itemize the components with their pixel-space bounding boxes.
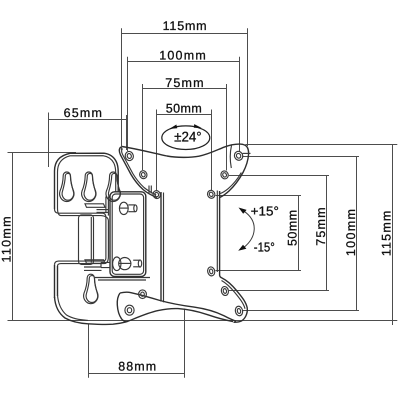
svg-text:115mm: 115mm bbox=[163, 19, 207, 33]
svg-text:50mm: 50mm bbox=[285, 210, 299, 246]
svg-text:88mm: 88mm bbox=[118, 360, 156, 374]
svg-text:+15°: +15° bbox=[251, 204, 279, 219]
svg-text:50mm: 50mm bbox=[166, 101, 202, 115]
svg-text:65mm: 65mm bbox=[64, 106, 102, 120]
svg-text:-15°: -15° bbox=[254, 239, 275, 254]
svg-text:110mm: 110mm bbox=[0, 217, 14, 263]
svg-text:75mm: 75mm bbox=[165, 76, 203, 90]
svg-text:115mm: 115mm bbox=[379, 211, 393, 257]
svg-text:±24°: ±24° bbox=[174, 129, 202, 145]
svg-text:75mm: 75mm bbox=[314, 207, 328, 245]
